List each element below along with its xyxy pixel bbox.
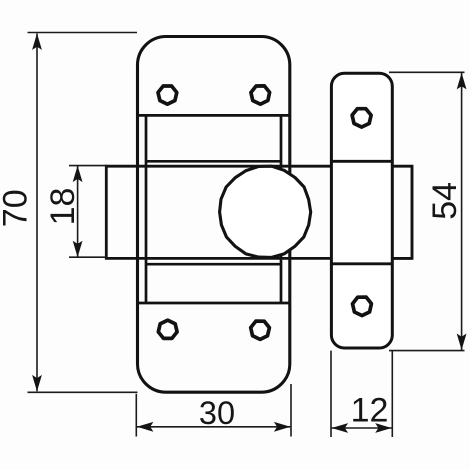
dim 54 bottom extension line (389, 350, 465, 352)
screw hole top-left (158, 86, 177, 104)
screw hole bottom-left (158, 320, 177, 338)
dim 18 bottom extension line (69, 256, 108, 258)
svg-text:70: 70 (0, 189, 35, 227)
dim 30 right extension line (290, 384, 292, 437)
svg-text:54: 54 (426, 182, 464, 220)
dim 12 arrow right (375, 423, 392, 433)
dim 18 arrow down (73, 241, 83, 258)
housing right vertical line (280, 115, 283, 303)
keeper slot upper line (331, 160, 392, 163)
housing top edge line (138, 114, 290, 117)
dim 70 dimension line (36, 34, 38, 392)
dim 70 bottom extension line (28, 391, 138, 393)
dim 12 dimension line (332, 427, 392, 429)
bolt body base plate (138, 37, 290, 393)
dim 70 top extension line (28, 32, 138, 34)
housing left vertical line (145, 115, 148, 303)
dim 54 top extension line (389, 71, 465, 73)
dim 70 arrow up (32, 33, 42, 50)
dim 30 arrow left (137, 422, 154, 432)
housing bottom edge line (138, 302, 290, 305)
dim 18 top extension line (69, 165, 108, 167)
dim 54 dimension line (461, 73, 463, 350)
svg-text:30: 30 (199, 395, 235, 431)
knob (220, 166, 311, 257)
dim 54 arrow up (457, 73, 467, 90)
dim 12 left extension line (330, 351, 332, 437)
dim 70 arrow down (32, 375, 42, 392)
housing slot lower line (146, 263, 281, 266)
dim 30 arrow right (274, 422, 291, 432)
keeper screw hole top (352, 109, 371, 127)
dim 12 arrow left (332, 423, 349, 433)
svg-text:12: 12 (351, 392, 389, 430)
bolt bar end section right of keeper (392, 165, 412, 260)
dim 54 arrow down (457, 334, 467, 351)
screw hole top-right (251, 86, 270, 104)
dim 18 dimension line (77, 166, 79, 257)
housing slot upper line (146, 160, 281, 163)
bolt bar left section (106, 165, 331, 260)
dim 18 arrow up (73, 166, 83, 183)
dim 12 right extension line (391, 351, 393, 437)
svg-text:18: 18 (44, 188, 82, 226)
dim 30 left extension line (135, 394, 137, 437)
keeper screw hole bottom (353, 297, 372, 316)
screw hole bottom-right (251, 321, 270, 339)
dim 30 dimension line (137, 426, 291, 428)
keeper plate (331, 73, 392, 348)
keeper slot lower line (331, 262, 392, 265)
